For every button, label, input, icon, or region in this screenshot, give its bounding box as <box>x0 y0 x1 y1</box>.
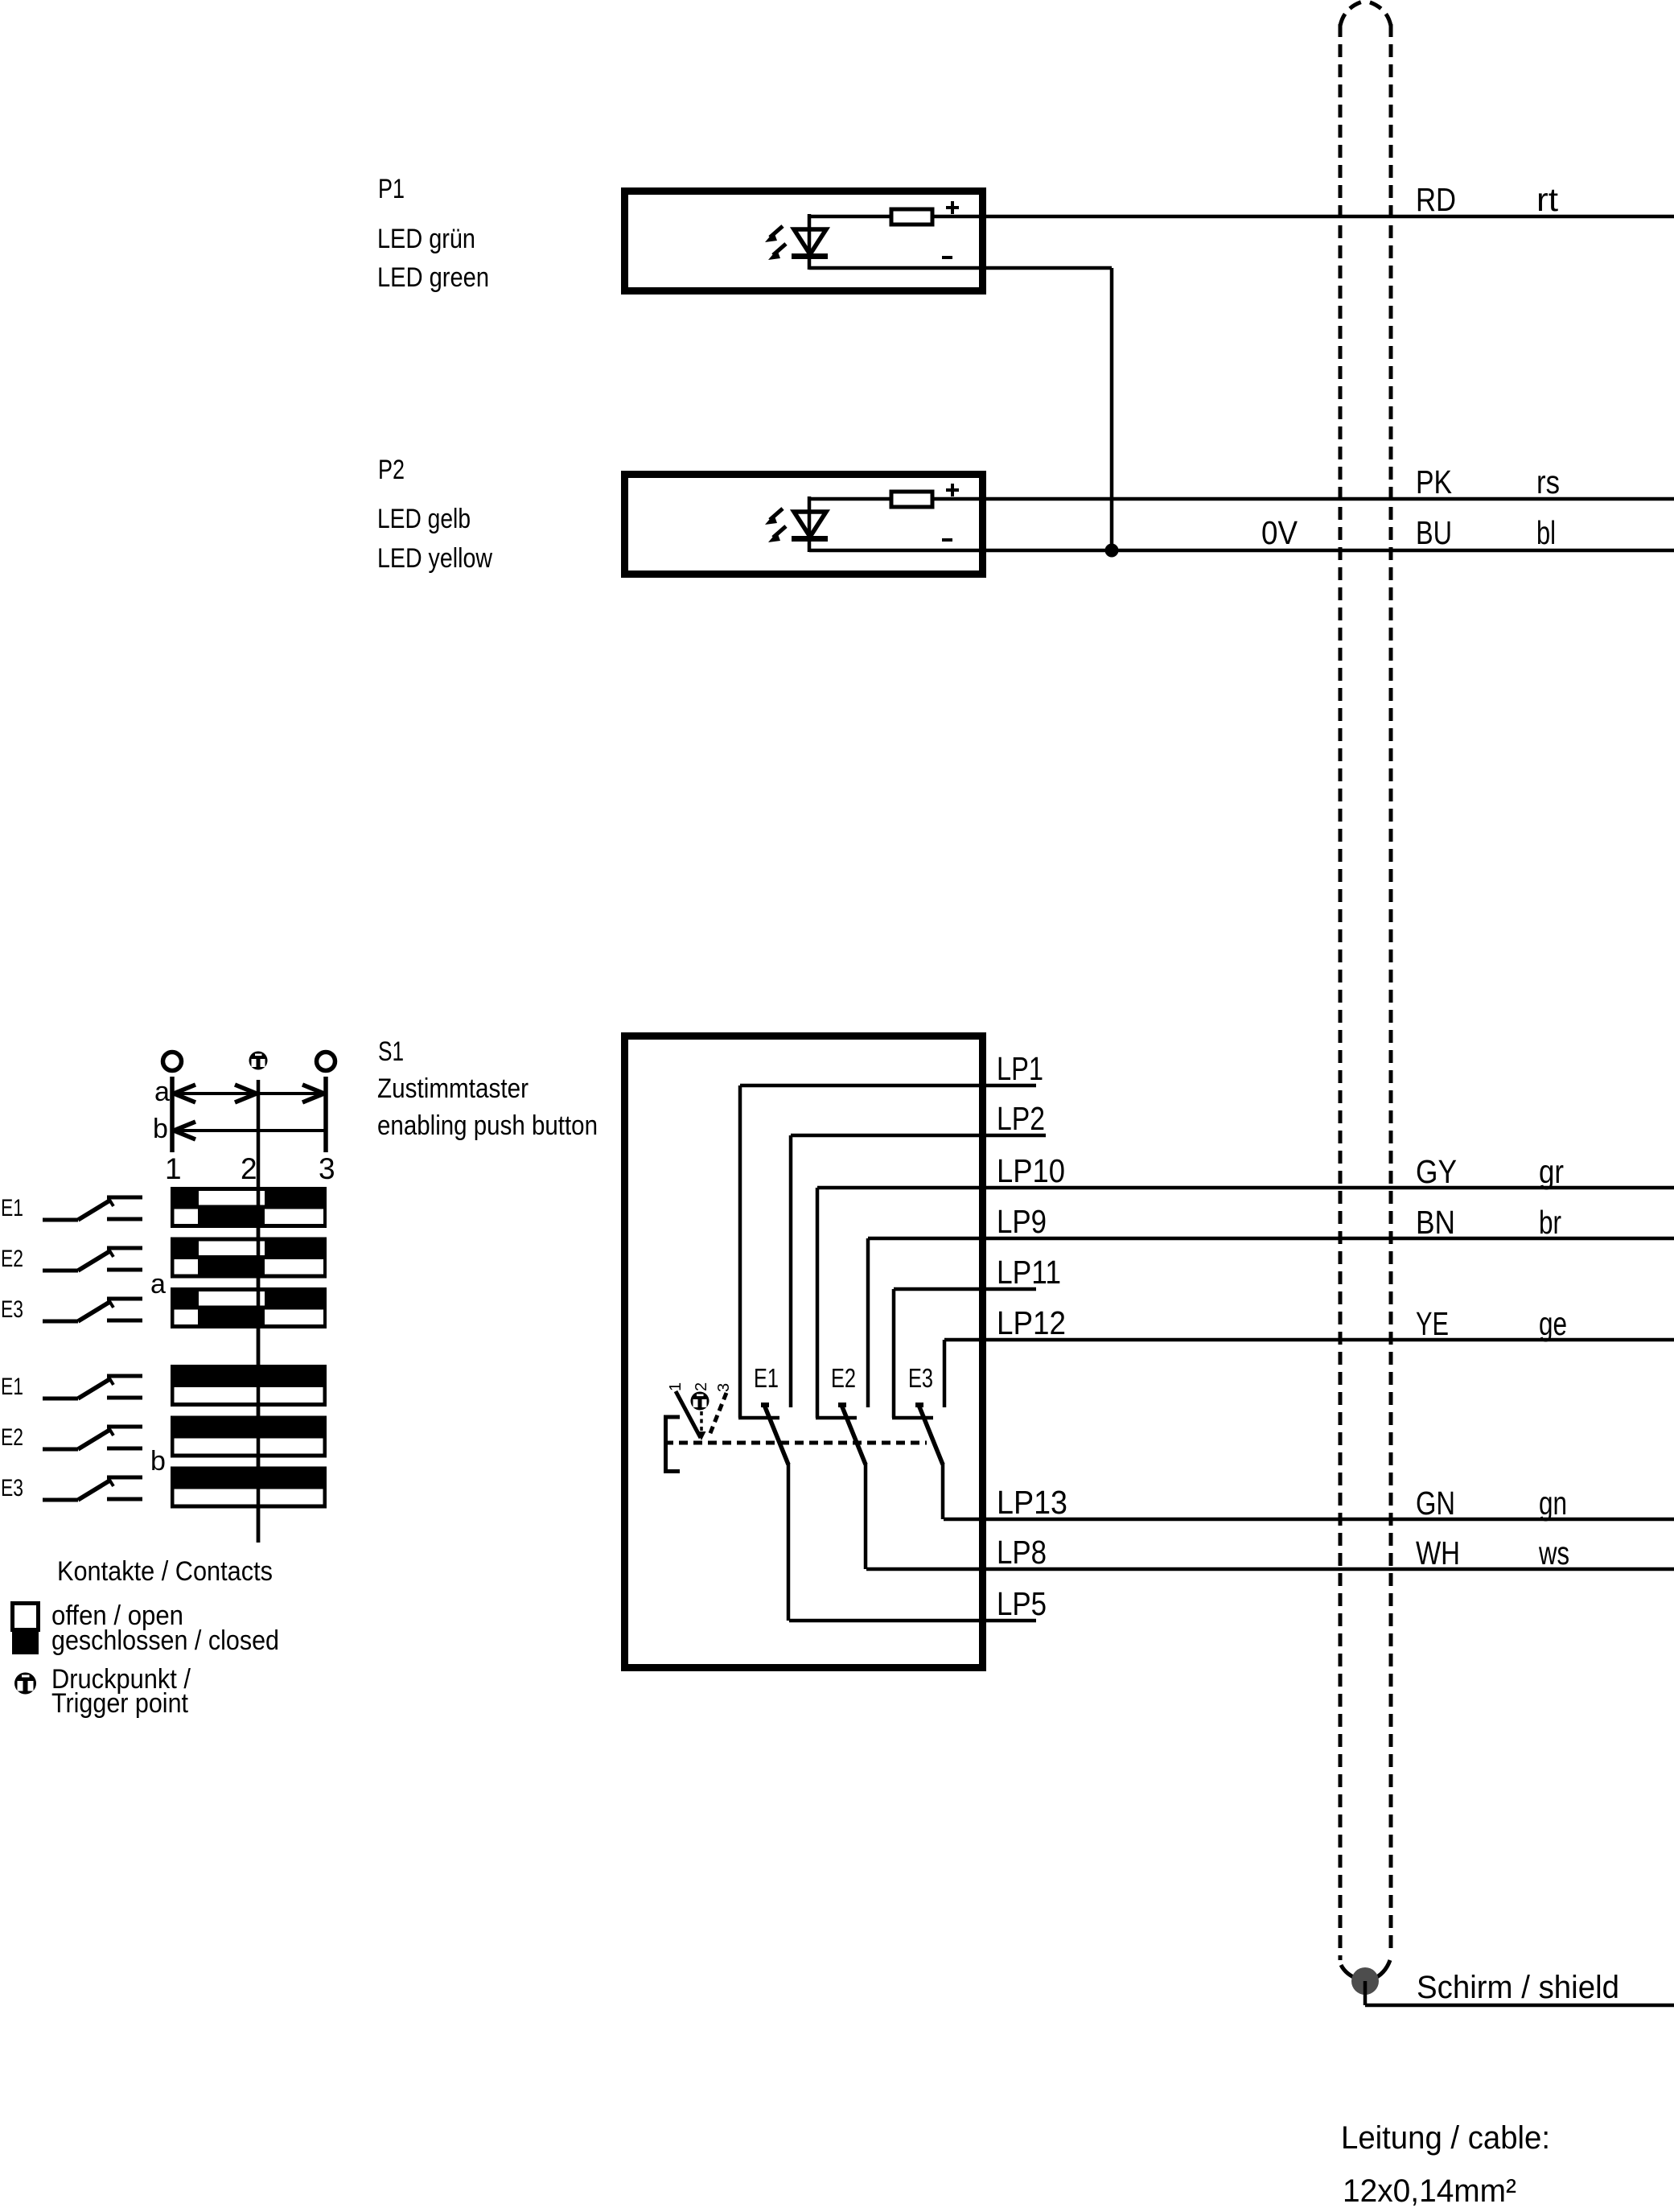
svg-text:LP11: LP11 <box>997 1254 1061 1291</box>
svg-text:LP8: LP8 <box>997 1534 1047 1571</box>
svg-text:LP12: LP12 <box>997 1304 1066 1341</box>
travel scale circle position 1 <box>163 1052 182 1071</box>
svg-text:3: 3 <box>319 1152 335 1185</box>
contact E2 blade <box>841 1405 866 1464</box>
wire LP10 vertical <box>816 1188 820 1418</box>
LED D1 (P1) triangle <box>794 229 826 254</box>
svg-text:E2: E2 <box>1 1424 23 1451</box>
legend open square <box>13 1604 39 1630</box>
svg-text:Schirm / shield: Schirm / shield <box>1417 1970 1619 2005</box>
travel scale trigger point circle position 2 <box>249 1052 268 1070</box>
svg-text:1: 1 <box>165 1152 182 1185</box>
contact E2 blade tick <box>838 1403 846 1407</box>
wire LP9 <box>868 1237 1674 1241</box>
svg-text:LP10: LP10 <box>997 1152 1065 1189</box>
wire LP8 <box>866 1567 1674 1571</box>
contact state bar E2 row a <box>171 1238 327 1279</box>
wire LP10 <box>817 1186 1674 1190</box>
svg-text:12x0,14mm²: 12x0,14mm² <box>1343 2173 1516 2209</box>
svg-text:P1: P1 <box>378 174 405 204</box>
svg-text:ge: ge <box>1539 1305 1567 1342</box>
resistor R2 in P2 <box>891 492 932 507</box>
svg-text:GN: GN <box>1416 1485 1455 1522</box>
resistor R1 in P1 <box>891 209 932 224</box>
svg-text:LED green: LED green <box>377 262 489 293</box>
legend trigger point symbol <box>14 1673 36 1695</box>
travel scale vertical 3 <box>323 1077 328 1152</box>
LED D2 (P2) triangle <box>794 512 826 537</box>
LED D1 (P1) light arrow 2 <box>768 244 786 260</box>
svg-text:br: br <box>1539 1204 1561 1241</box>
enabling switch S1 box <box>625 1036 983 1668</box>
travel arrow b <box>172 1129 326 1132</box>
actuator common dashed line <box>664 1441 927 1445</box>
svg-text:S1: S1 <box>378 1036 404 1067</box>
LED module P1 box <box>625 192 983 291</box>
LED D2 (P2) light arrow 2 <box>768 526 786 542</box>
svg-text:LP13: LP13 <box>997 1484 1067 1521</box>
svg-text:bl: bl <box>1536 514 1556 551</box>
wire RD net from P1 + terminal to cable <box>933 215 1674 219</box>
wire LP9 vertical <box>866 1238 870 1407</box>
svg-text:rt: rt <box>1536 181 1559 218</box>
pin + of P1 <box>946 206 959 209</box>
travel arrow a <box>172 1092 326 1095</box>
contact E2 bottom lead <box>864 1463 868 1569</box>
contact state bar E3 row a <box>171 1287 327 1328</box>
LED D1 (P1) light arrow 1 <box>765 226 783 242</box>
svg-text:RD: RD <box>1416 181 1456 218</box>
wire P2 anode to resistor <box>809 497 933 501</box>
svg-text:LP9: LP9 <box>997 1203 1047 1240</box>
pin - of P2 <box>942 538 952 542</box>
svg-text:E1: E1 <box>754 1363 779 1393</box>
contact state bar E1 row a <box>171 1187 327 1228</box>
wire LP1 vertical <box>738 1085 742 1418</box>
svg-text:Kontakte / Contacts: Kontakte / Contacts <box>57 1556 273 1587</box>
wire LP11 vertical <box>892 1289 896 1418</box>
svg-text:BN: BN <box>1416 1204 1455 1241</box>
svg-text:GY: GY <box>1416 1153 1457 1190</box>
svg-text:Zustimmtaster: Zustimmtaster <box>377 1073 529 1104</box>
switch symbol E3 contact b <box>43 1477 142 1500</box>
cable sheath left dashed line <box>1339 24 1343 1960</box>
pin - of P1 <box>942 256 952 259</box>
shield lead down <box>1363 1981 1368 2005</box>
contact state bar E2 row b <box>171 1416 327 1458</box>
svg-text:E2: E2 <box>1 1246 23 1272</box>
svg-text:E1: E1 <box>1 1374 23 1400</box>
actuator bracket <box>666 1417 681 1472</box>
svg-text:YE: YE <box>1416 1305 1449 1342</box>
trigger point symbol (S1) <box>691 1392 709 1411</box>
wire LP2 <box>791 1134 1046 1138</box>
svg-text:E3: E3 <box>1 1475 23 1501</box>
wire LP12 <box>944 1338 1674 1342</box>
switch symbol E1 contact a <box>43 1197 142 1220</box>
position 2 reference line over table <box>257 1187 261 1543</box>
contact E1 blade tick <box>761 1403 769 1407</box>
pin + of P2 <box>946 488 959 492</box>
wire P1 - down to 0V node <box>1110 268 1114 550</box>
LED D1 (P1) cathode bar <box>792 253 828 259</box>
wire LP12 vertical <box>943 1340 947 1407</box>
svg-text:a: a <box>154 1077 170 1107</box>
contact E3 blade <box>919 1405 943 1464</box>
cable shield gather left <box>1341 1965 1359 1979</box>
svg-text:3: 3 <box>715 1383 733 1392</box>
svg-text:gn: gn <box>1539 1485 1567 1522</box>
wire LP10 to E2 contact <box>816 1416 857 1420</box>
actuator travel dashed arrow <box>700 1411 703 1432</box>
travel scale circle position 3 <box>317 1052 335 1071</box>
svg-text:E2: E2 <box>831 1363 856 1393</box>
junction node 0V <box>1105 544 1119 558</box>
switch symbol E2 contact a <box>43 1248 142 1271</box>
cable sheath top arch <box>1340 1 1365 26</box>
legend closed square <box>12 1632 39 1654</box>
svg-text:0V: 0V <box>1261 514 1298 551</box>
svg-text:PK: PK <box>1416 463 1452 500</box>
svg-text:LP2: LP2 <box>997 1100 1045 1137</box>
travel scale vertical 1 <box>170 1077 175 1152</box>
wire PK net from P2 + terminal to cable <box>933 497 1674 501</box>
wire LP11 to E3 contact <box>892 1416 933 1420</box>
wire LP11 <box>894 1287 1036 1291</box>
wire LP1 to E1 contact <box>738 1416 779 1420</box>
shield terminal dot <box>1351 1967 1379 1995</box>
svg-text:E3: E3 <box>1 1296 23 1323</box>
contact E1 bottom lead <box>787 1463 791 1621</box>
wire P1 - terminal <box>809 266 1112 270</box>
svg-text:1: 1 <box>667 1382 685 1391</box>
svg-text:P2: P2 <box>378 455 405 485</box>
cable sheath right dashed line <box>1389 24 1393 1955</box>
svg-text:WH: WH <box>1416 1534 1460 1571</box>
svg-text:enabling push button: enabling push button <box>377 1110 598 1141</box>
LED D2 (P2) anode lead <box>808 496 812 552</box>
wire P1 anode to resistor <box>809 215 933 219</box>
svg-text:b: b <box>153 1114 168 1144</box>
contact E3 bottom lead <box>941 1463 945 1519</box>
wire shield <box>1365 2004 1674 2008</box>
switch symbol E1 contact b <box>43 1376 142 1398</box>
svg-text:Leitung / cable:: Leitung / cable: <box>1341 2120 1550 2156</box>
svg-text:2: 2 <box>241 1152 257 1185</box>
svg-text:LP1: LP1 <box>997 1050 1043 1087</box>
svg-text:LP5: LP5 <box>997 1585 1047 1622</box>
svg-text:rs: rs <box>1536 463 1560 500</box>
LED D2 (P2) light arrow 1 <box>765 509 783 525</box>
svg-text:E1: E1 <box>1 1195 23 1221</box>
contact state bar E3 row b <box>171 1467 327 1509</box>
svg-text:ws: ws <box>1538 1534 1569 1571</box>
wire 0V / BU net from P2 - terminal to cable <box>809 549 1674 553</box>
switch symbol E3 contact a <box>43 1299 142 1321</box>
cable shield gather right <box>1372 1960 1390 1979</box>
actuator position 1 stroke <box>676 1391 701 1438</box>
LED module P2 box <box>625 475 983 575</box>
svg-text:geschlossen / closed: geschlossen / closed <box>51 1625 279 1656</box>
wire LP1 <box>740 1084 1036 1088</box>
svg-text:a: a <box>150 1269 166 1300</box>
LED D1 (P1) anode lead <box>808 214 812 270</box>
svg-text:BU: BU <box>1416 514 1452 551</box>
svg-text:Trigger point: Trigger point <box>51 1688 188 1719</box>
svg-text:LED grün: LED grün <box>377 224 475 254</box>
wire LP2 vertical <box>789 1135 793 1407</box>
svg-text:2: 2 <box>693 1382 710 1391</box>
position 2 reference line <box>257 1080 261 1543</box>
svg-text:gr: gr <box>1539 1153 1564 1190</box>
svg-text:LED gelb: LED gelb <box>377 504 471 534</box>
contact state bar E1 row b <box>171 1365 327 1407</box>
svg-text:b: b <box>150 1446 166 1477</box>
LED D2 (P2) cathode bar <box>792 536 828 542</box>
svg-text:LED yellow: LED yellow <box>377 543 492 574</box>
contact E3 blade tick <box>915 1403 923 1407</box>
switch symbol E2 contact b <box>43 1427 142 1449</box>
wire LP5 <box>789 1619 1036 1623</box>
actuator position 3 dashed stroke <box>709 1393 726 1437</box>
svg-text:E3: E3 <box>908 1363 933 1393</box>
contact E1 blade <box>764 1405 788 1464</box>
wire LP13 <box>944 1518 1674 1522</box>
